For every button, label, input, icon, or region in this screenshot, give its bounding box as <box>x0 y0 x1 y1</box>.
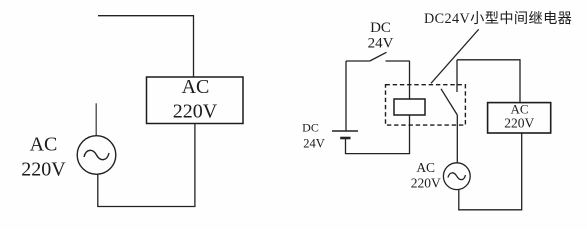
relay K1 dashed enclosure <box>386 85 466 125</box>
svg-text:DC: DC <box>370 20 391 36</box>
svg-text:DC: DC <box>302 121 319 135</box>
wire from left box bottom to source bottom <box>98 124 195 207</box>
svg-text:220V: 220V <box>21 159 66 181</box>
svg-text:AC: AC <box>30 134 58 156</box>
label AC 220V (left source) <box>21 134 66 181</box>
wire source bottom to right box bottom <box>459 133 522 209</box>
relay coil K1 <box>394 99 425 115</box>
svg-text:AC: AC <box>416 160 435 175</box>
wire coil top <box>409 61 411 99</box>
svg-text:DC24V小型中间继电器: DC24V小型中间继电器 <box>424 11 572 27</box>
svg-text:220V: 220V <box>504 115 534 130</box>
svg-text:AC: AC <box>182 76 210 98</box>
label AC 220V (right source) <box>411 160 441 190</box>
svg-text:24V: 24V <box>303 137 325 151</box>
AC source G1 (left) <box>77 136 116 175</box>
label DC 24V (battery) <box>302 121 325 151</box>
battery B1 <box>332 131 358 138</box>
svg-text:220V: 220V <box>173 101 218 123</box>
load box AC 220V (left) <box>147 76 244 124</box>
leader line to relay <box>431 29 479 83</box>
wire contact top terminal <box>456 60 458 92</box>
label DC 24V (switch) <box>368 20 394 52</box>
annotation label DC24V relay <box>424 11 572 27</box>
svg-text:AC: AC <box>510 102 528 117</box>
wire top-left L <box>98 16 194 77</box>
switch S1 <box>346 52 410 61</box>
svg-text:24V: 24V <box>368 36 394 52</box>
wire right box top to contact top <box>457 60 520 103</box>
relay contact K1-1 blade <box>441 89 457 115</box>
wire battery bottom to coil bottom <box>346 115 410 153</box>
wire contact bottom to source top <box>456 115 458 163</box>
load box AC 220V (right) <box>488 102 551 134</box>
svg-text:220V: 220V <box>411 175 441 190</box>
wire stub above left source <box>95 103 97 136</box>
wire left vertical (switch to battery) <box>345 61 347 131</box>
AC source G2 (right) <box>443 163 470 190</box>
